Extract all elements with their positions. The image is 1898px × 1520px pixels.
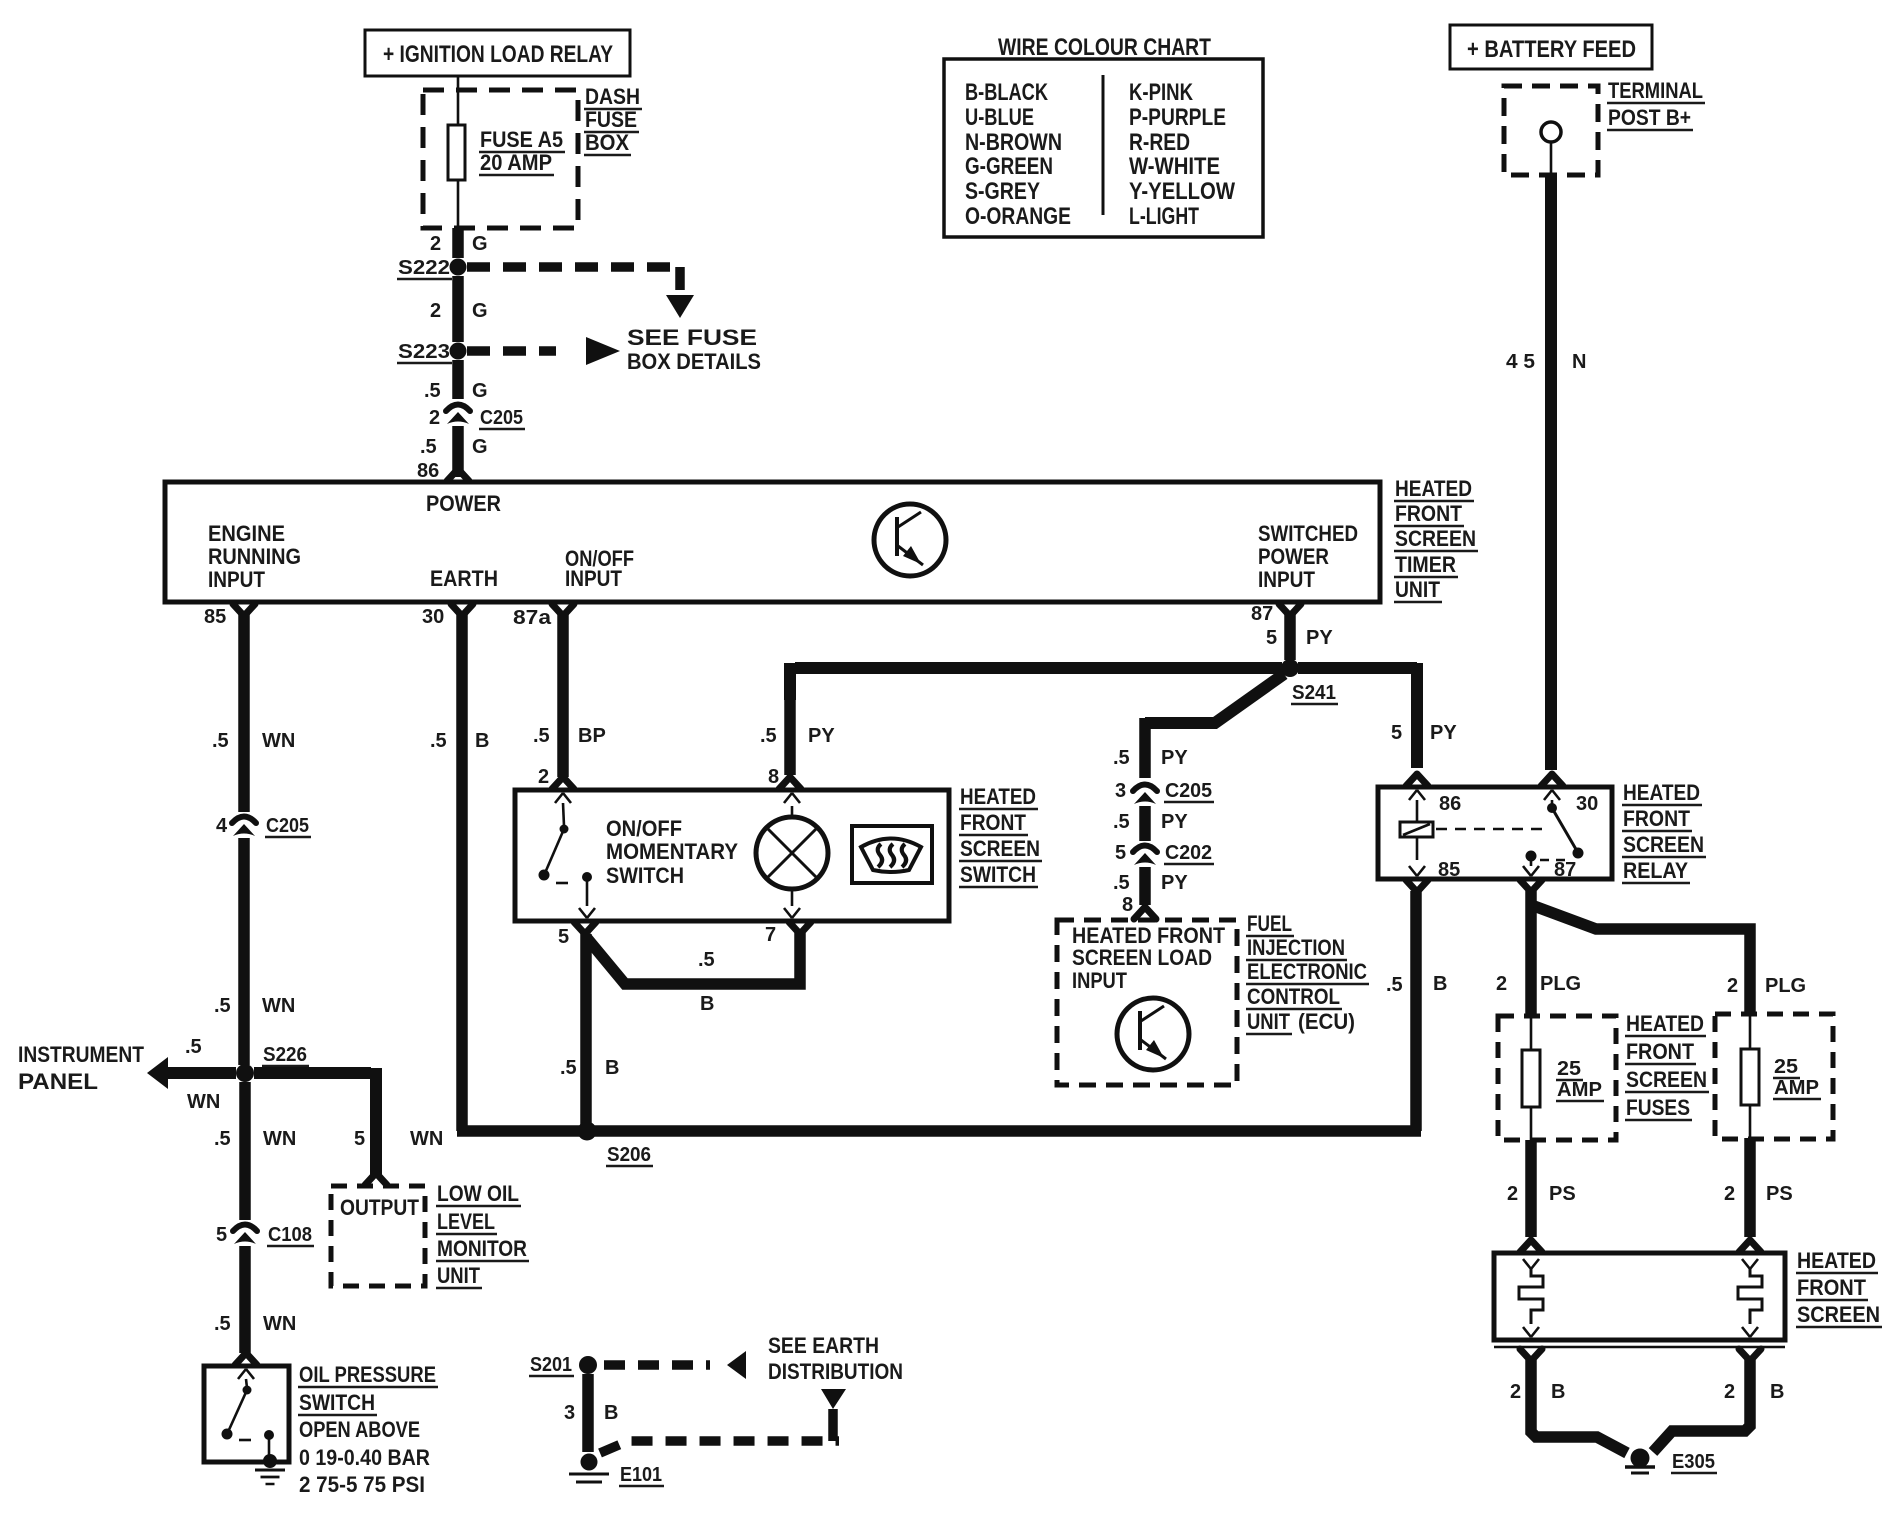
svg-text:86: 86 — [417, 460, 439, 482]
svg-text:INPUT: INPUT — [1258, 567, 1315, 592]
svg-text:WN: WN — [263, 1128, 296, 1150]
svg-text:EARTH: EARTH — [430, 566, 498, 591]
svg-text:PY: PY — [808, 725, 835, 747]
svg-text:C108: C108 — [268, 1224, 312, 1246]
svg-text:WN: WN — [410, 1128, 443, 1150]
earth point E101 — [581, 1454, 598, 1471]
svg-text:POST B+: POST B+ — [1608, 105, 1691, 130]
connector C205 (top) — [446, 405, 470, 412]
wire 2 G from S222 to S223 — [452, 276, 464, 342]
svg-text:UNIT: UNIT — [1395, 577, 1440, 602]
svg-text:SCREEN: SCREEN — [1797, 1302, 1880, 1327]
screen output forks — [1520, 1349, 1542, 1361]
svg-text:.5: .5 — [430, 730, 447, 752]
svg-text:FRONT: FRONT — [960, 810, 1026, 835]
svg-text:WIRE COLOUR CHART: WIRE COLOUR CHART — [998, 34, 1211, 61]
svg-text:SCREEN: SCREEN — [1623, 832, 1704, 857]
wire .5 G from S223 to C205 — [452, 360, 464, 399]
wire .5 G into timer pin 86 — [452, 426, 464, 477]
svg-text:2: 2 — [429, 407, 440, 429]
svg-text:FUEL: FUEL — [1247, 911, 1292, 936]
wire 2 PS right — [1744, 1138, 1756, 1237]
svg-text:.5: .5 — [698, 949, 715, 971]
terminal post B+ dashed box — [1504, 86, 1598, 175]
svg-text:87: 87 — [1251, 603, 1273, 625]
svg-text:30: 30 — [422, 606, 444, 628]
svg-text:3: 3 — [1115, 780, 1126, 802]
svg-text:DASH: DASH — [585, 84, 640, 109]
svg-text:.5: .5 — [214, 1313, 231, 1335]
svg-text:POWER: POWER — [426, 491, 501, 516]
svg-text:4: 4 — [216, 815, 228, 837]
svg-text:5: 5 — [354, 1128, 365, 1150]
svg-text:INPUT: INPUT — [565, 566, 622, 591]
wire - fuse feed inside dash fuse box — [457, 76, 460, 125]
svg-text:SCREEN LOAD: SCREEN LOAD — [1072, 945, 1212, 970]
svg-text:B: B — [475, 730, 489, 752]
relay coil dashed link — [1436, 828, 1545, 831]
on/off momentary switch contacts — [555, 793, 571, 803]
svg-text:8: 8 — [768, 766, 779, 788]
wire 5 WN branch from S226 to low oil monitor output — [254, 1067, 371, 1079]
svg-text:SWITCHED: SWITCHED — [1258, 521, 1358, 546]
svg-text:SEE EARTH: SEE EARTH — [768, 1333, 879, 1358]
terminal post circle — [1541, 122, 1561, 142]
svg-text:OPEN ABOVE: OPEN ABOVE — [299, 1417, 420, 1442]
wire .5 WN from C108 to oil pressure switch — [239, 1246, 251, 1353]
svg-text:PY: PY — [1430, 722, 1457, 744]
wire .5 B from pin 5 to S206 — [580, 934, 592, 1131]
svg-text:P-PURPLE: P-PURPLE — [1129, 104, 1226, 131]
svg-text:G-GREEN: G-GREEN — [965, 153, 1053, 180]
svg-text:.5: .5 — [560, 1057, 577, 1079]
wire 2 PLG relay 87 to left fuse — [1525, 891, 1537, 1016]
svg-text:HEATED: HEATED — [960, 784, 1036, 809]
wire 2 PS left — [1525, 1140, 1537, 1237]
svg-text:2 75-5 75 PSI: 2 75-5 75 PSI — [299, 1472, 425, 1497]
svg-text:UNIT: UNIT — [437, 1263, 480, 1288]
svg-text:FRONT: FRONT — [1623, 806, 1690, 831]
heated front screen relay box — [1378, 787, 1612, 879]
connector C108 — [233, 1225, 257, 1232]
svg-text:B: B — [605, 1057, 619, 1079]
wire .5 BP from pin 87a to switch pin 2 — [557, 614, 569, 777]
connector C205 (engine wire) — [232, 817, 256, 824]
svg-text:HEATED: HEATED — [1395, 476, 1472, 501]
svg-text:87: 87 — [1554, 859, 1576, 881]
svg-text:C205: C205 — [266, 815, 309, 837]
svg-text:2: 2 — [1496, 973, 1507, 995]
wire .5 PY from S241 to switch pin 8 — [795, 662, 1282, 674]
svg-text:K-PINK: K-PINK — [1129, 79, 1194, 106]
svg-text:FUSE A5: FUSE A5 — [480, 127, 563, 152]
oil pressure switch ground — [263, 1454, 277, 1468]
svg-text:INPUT: INPUT — [1072, 968, 1127, 993]
relay pin 87 exit — [1520, 880, 1542, 892]
svg-text:G: G — [472, 300, 488, 322]
svg-text:ELECTRONIC: ELECTRONIC — [1247, 959, 1367, 984]
svg-text:R-RED: R-RED — [1129, 129, 1190, 156]
svg-text:S206: S206 — [607, 1144, 651, 1166]
svg-text:S241: S241 — [1292, 682, 1336, 704]
svg-text:CONTROL: CONTROL — [1247, 984, 1340, 1009]
heated front screen timer unit box — [165, 482, 1380, 602]
battery feed wire 4 5 N — [1545, 175, 1557, 770]
svg-text:B: B — [700, 993, 714, 1015]
svg-text:FUSE: FUSE — [585, 107, 637, 132]
svg-text:B: B — [604, 1402, 618, 1424]
node S226 — [236, 1064, 254, 1082]
earth point E305 — [1631, 1449, 1650, 1468]
node S222 — [450, 259, 467, 276]
wire .5 B link pin7 to pin5 — [586, 933, 800, 984]
svg-text:7: 7 — [765, 924, 776, 946]
svg-text:C202: C202 — [1165, 842, 1212, 864]
svg-text:ENGINE: ENGINE — [208, 521, 285, 546]
svg-text:FUSES: FUSES — [1626, 1095, 1690, 1120]
ignition load relay header box — [365, 30, 630, 76]
right heater element — [1742, 1259, 1758, 1269]
wire 2 B right to E305 — [1653, 1360, 1750, 1452]
svg-text:.5: .5 — [1386, 974, 1403, 996]
svg-text:3: 3 — [564, 1402, 575, 1424]
wire 5 PY from S241 to relay pin 86 — [1298, 662, 1417, 674]
oil pressure switch contacts — [238, 1369, 254, 1379]
svg-text:HEATED: HEATED — [1623, 780, 1700, 805]
svg-text:.5: .5 — [214, 1128, 231, 1150]
svg-text:MOMENTARY: MOMENTARY — [606, 839, 738, 864]
left fuse 25 amp — [1530, 1016, 1533, 1050]
svg-text:FRONT: FRONT — [1797, 1275, 1867, 1300]
oil pressure switch box — [204, 1366, 289, 1462]
svg-text:.5: .5 — [212, 730, 229, 752]
svg-text:O-ORANGE: O-ORANGE — [965, 203, 1071, 230]
earth bus wire to relay — [457, 1125, 1421, 1137]
svg-text:ON/OFF: ON/OFF — [606, 816, 682, 841]
svg-text:INPUT: INPUT — [208, 567, 265, 592]
svg-text:.5: .5 — [1113, 747, 1130, 769]
svg-text:5: 5 — [558, 926, 569, 948]
node S241 — [1281, 659, 1299, 677]
wire 5 PY from timer pin 87 to S241 — [1284, 614, 1296, 660]
dash fuse box (dashed) — [423, 90, 578, 228]
svg-text:FRONT: FRONT — [1395, 501, 1462, 526]
svg-text:W-WHITE: W-WHITE — [1129, 153, 1220, 180]
svg-text:AMP: AMP — [1557, 1079, 1602, 1101]
svg-text:2: 2 — [538, 766, 549, 788]
node S201 — [579, 1356, 597, 1374]
wire .5 B from timer pin 30 (earth) to S206 — [456, 614, 468, 1131]
svg-text:FRONT: FRONT — [1626, 1039, 1695, 1064]
svg-text:0 19-0.40 BAR: 0 19-0.40 BAR — [299, 1445, 430, 1470]
svg-text:87a: 87a — [513, 607, 552, 629]
dashed arrow wire - see fuse box details — [467, 346, 556, 356]
svg-text:2: 2 — [1510, 1381, 1521, 1403]
wire 2 B left to E305 — [1531, 1360, 1627, 1453]
heated front screen box — [1494, 1253, 1785, 1340]
svg-text:.5: .5 — [760, 725, 777, 747]
svg-text:S201: S201 — [530, 1354, 572, 1376]
svg-text:30: 30 — [1576, 793, 1598, 815]
svg-text:SWITCH: SWITCH — [960, 862, 1036, 887]
svg-text:.5: .5 — [185, 1036, 202, 1058]
svg-text:85: 85 — [204, 606, 226, 628]
svg-text:RUNNING: RUNNING — [208, 544, 301, 569]
svg-text:SCREEN: SCREEN — [1395, 526, 1476, 551]
svg-text:BP: BP — [578, 725, 606, 747]
svg-text:.5: .5 — [420, 436, 437, 458]
svg-text:UNIT: UNIT — [1247, 1009, 1290, 1034]
fuse A5 symbol — [448, 125, 465, 180]
svg-text:SCREEN: SCREEN — [960, 836, 1040, 861]
svg-text:WN: WN — [187, 1091, 220, 1113]
svg-text:B: B — [1433, 973, 1447, 995]
svg-text:B: B — [1770, 1381, 1784, 1403]
svg-text:OIL PRESSURE: OIL PRESSURE — [299, 1362, 436, 1387]
svg-text:8: 8 — [1122, 894, 1133, 916]
svg-text:2: 2 — [430, 233, 441, 255]
svg-text:S223: S223 — [398, 341, 450, 363]
connector C202 — [1133, 846, 1157, 853]
right fuse 25 amp — [1749, 1014, 1752, 1049]
svg-text:HEATED: HEATED — [1797, 1248, 1876, 1273]
svg-text:WN: WN — [263, 1313, 296, 1335]
left heater element — [1523, 1259, 1539, 1269]
svg-text:G: G — [472, 233, 488, 255]
svg-text:(ECU): (ECU) — [1298, 1009, 1355, 1034]
svg-text:G: G — [472, 380, 488, 402]
transistor symbol in timer unit — [874, 504, 946, 576]
svg-text:PY: PY — [1306, 627, 1333, 649]
relay contact pin 30 — [1544, 790, 1560, 800]
svg-text:20 AMP: 20 AMP — [480, 150, 552, 175]
heated front screen switch box — [515, 790, 949, 921]
svg-text:OUTPUT: OUTPUT — [340, 1195, 419, 1220]
wire .5 WN from S226 to C108 — [239, 1082, 251, 1220]
wire .5 PY pin 8 into ECU — [1139, 867, 1151, 905]
svg-text:PLG: PLG — [1765, 975, 1806, 997]
svg-text:PY: PY — [1161, 872, 1188, 894]
svg-text:C205: C205 — [480, 407, 523, 429]
svg-text:25: 25 — [1774, 1056, 1798, 1078]
wire .5 WN from pin 85 — [238, 614, 250, 812]
svg-text:86: 86 — [1439, 793, 1461, 815]
svg-text:INJECTION: INJECTION — [1247, 935, 1345, 960]
svg-text:INSTRUMENT: INSTRUMENT — [18, 1042, 144, 1067]
svg-text:5: 5 — [216, 1224, 227, 1246]
svg-text:5: 5 — [1115, 842, 1126, 864]
svg-text:PLG: PLG — [1540, 973, 1581, 995]
heated screen icon — [852, 826, 932, 883]
chart divider — [1102, 75, 1105, 215]
svg-text:2: 2 — [1724, 1183, 1735, 1205]
svg-text:C205: C205 — [1165, 780, 1212, 802]
wire .5 PY between C205 and C202 — [1139, 806, 1151, 841]
svg-text:E305: E305 — [1672, 1451, 1715, 1473]
svg-text:S226: S226 — [263, 1044, 307, 1066]
svg-text:SWITCH: SWITCH — [299, 1390, 375, 1415]
svg-text:.5: .5 — [214, 995, 231, 1017]
svg-text:SEE FUSE: SEE FUSE — [627, 325, 757, 350]
svg-text:POWER: POWER — [1258, 544, 1329, 569]
right heated front screen fuse box (dashed) — [1715, 1014, 1833, 1139]
svg-text:25: 25 — [1557, 1058, 1581, 1080]
svg-text:BOX: BOX — [585, 130, 629, 155]
wire .5 PY from S241 to ECU branch — [1145, 674, 1284, 723]
connector C205 (ECU branch) — [1133, 785, 1157, 792]
svg-text:E101: E101 — [620, 1464, 662, 1486]
svg-text:.5: .5 — [424, 380, 441, 402]
svg-text:TERMINAL: TERMINAL — [1608, 78, 1703, 103]
switch indicator lamp — [756, 817, 828, 889]
svg-text:.5: .5 — [1113, 811, 1130, 833]
low oil level monitor unit output box (dashed) — [331, 1186, 425, 1286]
transistor symbol in ECU — [1117, 998, 1189, 1070]
svg-text:U-BLUE: U-BLUE — [965, 104, 1034, 131]
svg-text:HEATED: HEATED — [1626, 1011, 1704, 1036]
svg-text:RELAY: RELAY — [1623, 858, 1688, 883]
svg-text:DISTRIBUTION: DISTRIBUTION — [768, 1359, 903, 1384]
dashed earth distribution link at E101 — [600, 1441, 839, 1453]
svg-text:+ BATTERY FEED: + BATTERY FEED — [1467, 36, 1636, 63]
svg-text:.5: .5 — [1113, 872, 1130, 894]
wire colour chart box — [944, 59, 1263, 237]
svg-text:5: 5 — [1391, 722, 1402, 744]
svg-text:LOW OIL: LOW OIL — [437, 1181, 519, 1206]
relay pin 30 entry fork — [1541, 774, 1563, 786]
wire 2 PLG branch to right fuse — [1534, 906, 1750, 1014]
svg-text:PS: PS — [1766, 1183, 1793, 1205]
wire 3 B from S201 to E101 — [582, 1374, 594, 1452]
node S223 — [450, 343, 467, 360]
relay contact pin 87 — [1526, 851, 1537, 862]
svg-text:S222: S222 — [398, 257, 450, 279]
svg-text:N: N — [1572, 351, 1586, 373]
svg-text:5: 5 — [1266, 627, 1277, 649]
svg-text:PANEL: PANEL — [18, 1069, 98, 1094]
svg-text:.5: .5 — [533, 725, 550, 747]
svg-text:WN: WN — [262, 730, 295, 752]
svg-text:B-BLACK: B-BLACK — [965, 79, 1049, 106]
node S206 — [578, 1122, 597, 1141]
svg-text:PY: PY — [1161, 747, 1188, 769]
svg-text:85: 85 — [1438, 859, 1460, 881]
relay coil and pin 86/85 — [1409, 790, 1425, 800]
svg-text:G: G — [472, 436, 488, 458]
dashed wire S201 to earth distribution — [604, 1360, 710, 1370]
dashed wire from S222 to fuse box details — [467, 262, 680, 272]
svg-text:LEVEL: LEVEL — [437, 1209, 495, 1234]
svg-text:2: 2 — [1727, 975, 1738, 997]
left heated front screen fuse box (dashed) — [1498, 1016, 1616, 1140]
svg-text:N-BROWN: N-BROWN — [965, 129, 1062, 156]
svg-text:S-GREY: S-GREY — [965, 178, 1040, 205]
svg-text:BOX DETAILS: BOX DETAILS — [627, 349, 761, 374]
svg-text:4 5: 4 5 — [1506, 351, 1535, 373]
wire .5 WN from C205 to S226 — [238, 838, 250, 1065]
relay pin 85 exit — [1406, 880, 1428, 892]
svg-text:AMP: AMP — [1774, 1077, 1819, 1099]
wire 2 G from fuse to S222 — [452, 228, 464, 258]
svg-text:PY: PY — [1161, 811, 1188, 833]
svg-text:WN: WN — [262, 995, 295, 1017]
svg-text:PS: PS — [1549, 1183, 1576, 1205]
svg-text:L-LIGHT: L-LIGHT — [1129, 203, 1199, 230]
svg-text:B: B — [1551, 1381, 1565, 1403]
svg-text:Y-YELLOW: Y-YELLOW — [1129, 178, 1235, 205]
svg-text:2: 2 — [1724, 1381, 1735, 1403]
svg-text:2: 2 — [1507, 1183, 1518, 1205]
svg-text:MONITOR: MONITOR — [437, 1236, 527, 1261]
svg-text:2: 2 — [430, 300, 441, 322]
ECU heated front screen load input box (dashed) — [1057, 920, 1237, 1085]
battery feed header box — [1450, 25, 1652, 69]
svg-text:+ IGNITION LOAD RELAY: + IGNITION LOAD RELAY — [383, 41, 613, 68]
svg-text:SWITCH: SWITCH — [606, 863, 684, 888]
svg-text:TIMER: TIMER — [1395, 552, 1456, 577]
instrument panel arrow and wire — [147, 1057, 168, 1089]
svg-text:SCREEN: SCREEN — [1626, 1067, 1707, 1092]
wire .5 B from relay 85 to earth bus — [1410, 891, 1422, 1131]
